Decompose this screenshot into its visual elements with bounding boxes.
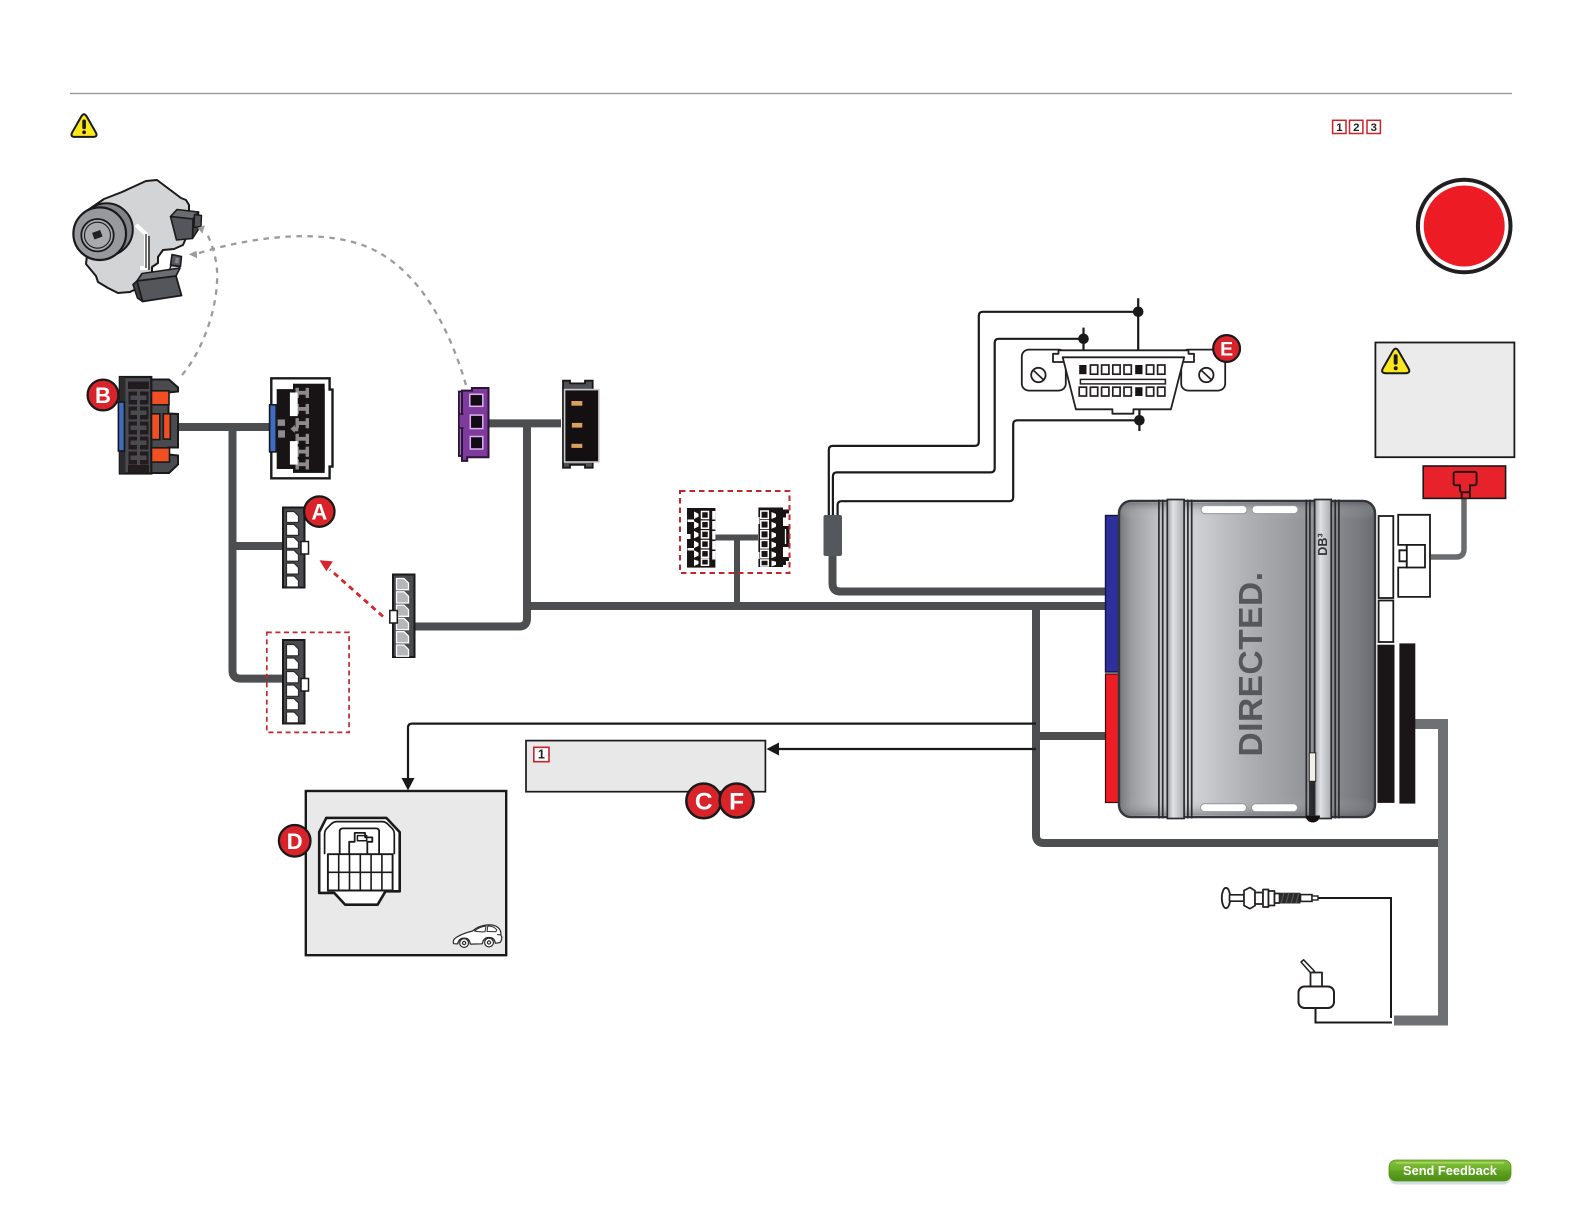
svg-text:DB³: DB³	[1316, 533, 1330, 555]
svg-text:D: D	[287, 829, 303, 854]
svg-text:E: E	[1220, 339, 1233, 361]
svg-text:Send Feedback: Send Feedback	[1403, 1163, 1498, 1178]
svg-text:2: 2	[1353, 122, 1359, 134]
svg-text:B: B	[95, 383, 111, 408]
svg-text:A: A	[311, 499, 327, 524]
svg-text:1: 1	[1336, 122, 1343, 134]
svg-text:C: C	[695, 789, 713, 816]
svg-text:F: F	[729, 788, 744, 815]
svg-text:1: 1	[538, 748, 545, 762]
svg-text:3: 3	[1371, 122, 1377, 134]
svg-text:DIRECTED.: DIRECTED.	[1233, 571, 1270, 756]
